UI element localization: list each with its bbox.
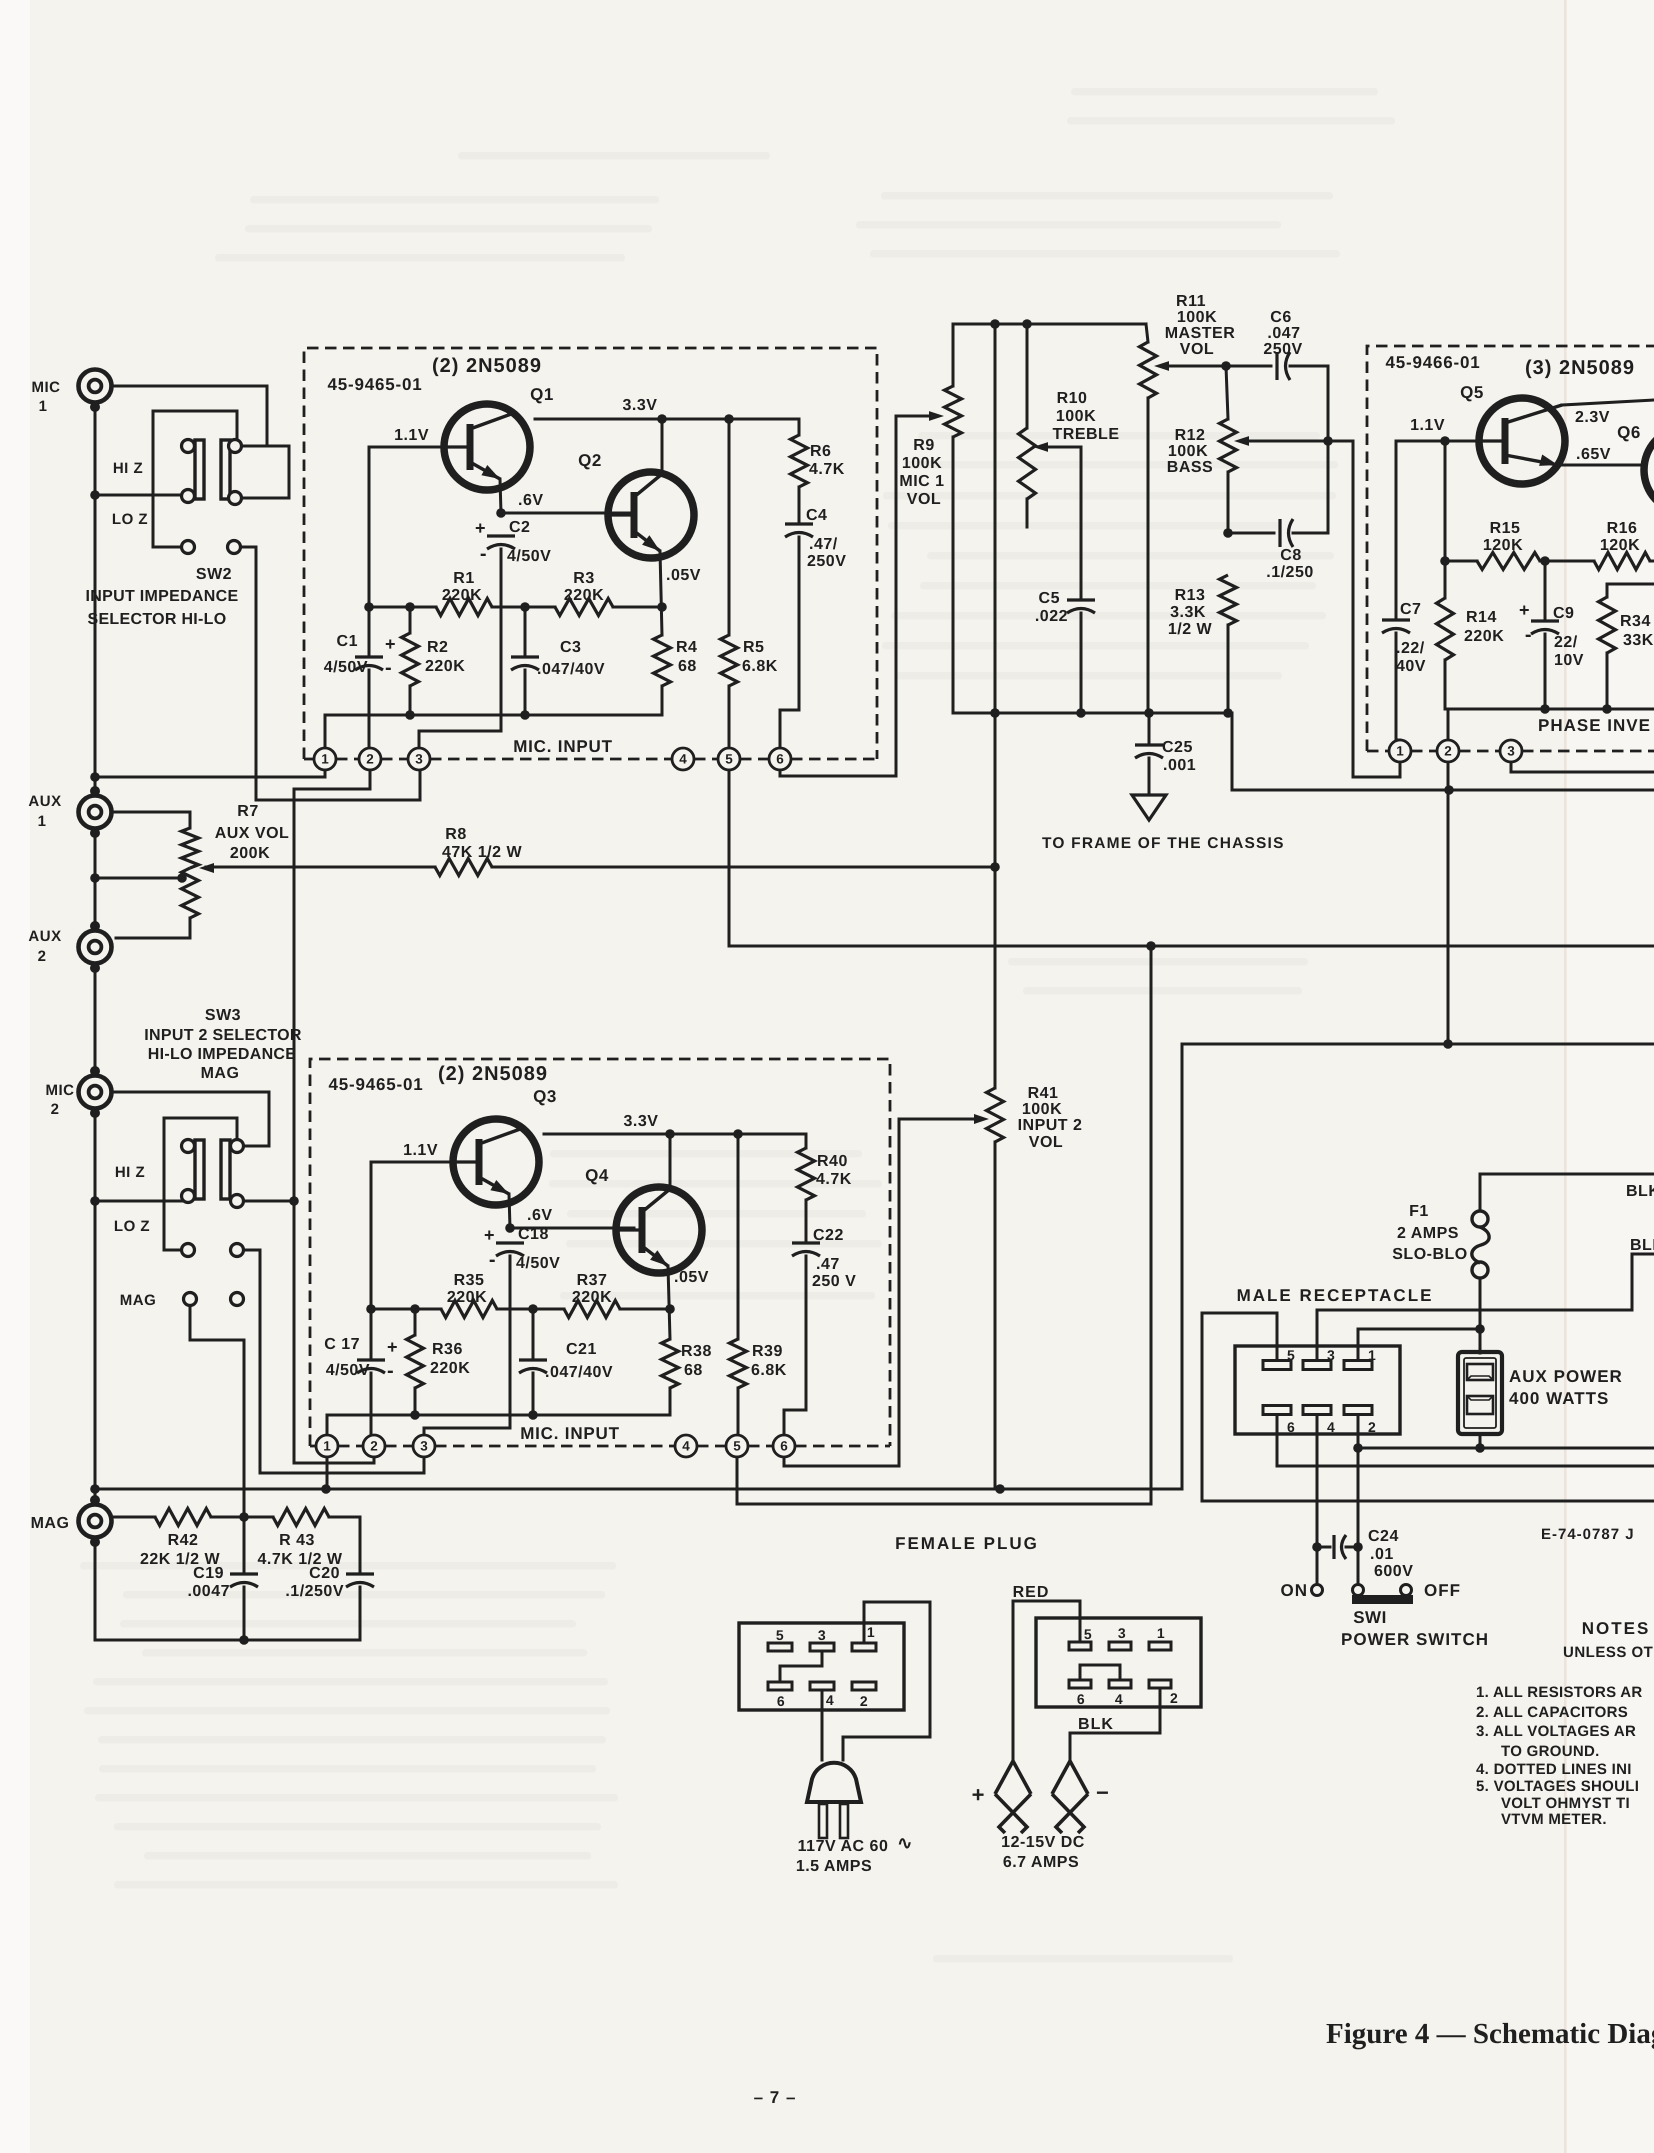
wire module2 terminal3 stub — [423, 1457, 426, 1473]
svg-text:3: 3 — [415, 752, 423, 767]
wire SW2 crossover left leg — [153, 411, 181, 547]
svg-text:1: 1 — [38, 813, 47, 830]
svg-text:6.8K: 6.8K — [742, 658, 778, 675]
svg-text:33K: 33K — [1623, 632, 1654, 649]
wire bus AUX1 to AUX2 — [94, 833, 97, 926]
wire R12 wiper to phase inverter input — [1240, 440, 1353, 443]
wire module3 terminal3 output (clipped) — [1511, 762, 1654, 772]
switch SW1 power switch — [1312, 1585, 1414, 1605]
potentiometer R41 100K INPUT 2 VOL — [987, 1088, 1004, 1142]
capacitor C19 — [230, 1572, 258, 1575]
svg-text:.047: .047 — [1267, 325, 1300, 342]
dash terminal 3 rightward (clipped) — [1522, 750, 1654, 753]
switch SW2 (DPDT input impedance selector) — [182, 440, 242, 554]
svg-text:BASS: BASS — [1167, 459, 1213, 476]
svg-text:12-15V DC: 12-15V DC — [1001, 1834, 1085, 1851]
wire C17 bottom to terminal 2 (module 2) — [370, 1373, 373, 1446]
pin 1 (female plug 1) — [852, 1643, 876, 1651]
wire R10 bottom stub — [1026, 499, 1029, 527]
svg-text:1: 1 — [321, 752, 329, 767]
dashed enclosure module 45-9466-01 (phase inverter) — [1367, 346, 1654, 751]
wire AUX1 jack to R7 top — [111, 812, 190, 828]
wire Q1 emitter to .6V node — [500, 479, 501, 513]
svg-text:220K: 220K — [1464, 628, 1504, 645]
svg-text:R 43: R 43 — [279, 1532, 315, 1549]
dash 1-2 (module 2) — [338, 1445, 363, 1448]
junction C9 top — [1540, 556, 1550, 566]
svg-text:AUX POWER: AUX POWER — [1509, 1367, 1623, 1386]
wire bias row left segment (module 2) — [371, 1308, 441, 1311]
svg-text:4: 4 — [1327, 1419, 1335, 1435]
svg-text:SWI: SWI — [1353, 1608, 1387, 1627]
svg-text:.6V: .6V — [527, 1207, 553, 1224]
junction R5 / rail — [724, 414, 734, 424]
svg-text:C8: C8 — [1280, 547, 1301, 564]
wire Q5 emitter .65V line to Q6 — [1561, 464, 1643, 467]
wire C3 top lead — [524, 607, 527, 654]
svg-text:+: + — [484, 1225, 495, 1245]
AUX POWER outlet — [1458, 1352, 1502, 1434]
svg-text:MASTER: MASTER — [1165, 325, 1236, 342]
wire R40 to C22 — [805, 1200, 808, 1240]
svg-text:R14: R14 — [1466, 609, 1497, 626]
svg-text:117V AC 60: 117V AC 60 — [798, 1838, 889, 1855]
svg-text:10V: 10V — [1554, 652, 1584, 669]
wire rail corner to R11 — [1146, 324, 1148, 342]
wire pin1 to fuse junction — [1358, 1329, 1480, 1360]
svg-text:.001: .001 — [1163, 757, 1196, 774]
wire RED lead pin5 to battery clip — [1013, 1601, 1080, 1763]
svg-text:-: - — [1525, 624, 1532, 646]
wire mic1 output line to phase inverter — [729, 945, 1654, 948]
svg-text:POWER SWITCH: POWER SWITCH — [1341, 1630, 1489, 1649]
svg-text:R3: R3 — [573, 570, 594, 587]
pin 5 (female plug 1) — [768, 1643, 792, 1651]
junction bus / module2 T1 — [321, 1484, 331, 1494]
wire SW3 MAG contact to R42/R43 junction — [190, 1306, 244, 1517]
junction R7 tap — [177, 873, 187, 883]
wire R4 bottom lead — [661, 686, 664, 715]
svg-text:MIC 1: MIC 1 — [899, 473, 944, 490]
junction R2 top — [405, 602, 415, 612]
wire jumper pin3 to pin6 (plug 1) — [780, 1651, 822, 1682]
wire SW3 LO-Z right to module2 terminal 3 — [243, 1250, 424, 1473]
svg-text:MIC. INPUT: MIC. INPUT — [513, 737, 613, 756]
dashed enclosure module 45-9465-01 (MIC2 preamp) — [310, 1059, 890, 1446]
wire R7 wiper to R8 — [206, 866, 435, 869]
wire long ground bus — [95, 1488, 1182, 1491]
transistor Q6 (partial, clipped at page edge) — [1644, 427, 1654, 513]
wire MIC2 jack to SW3 top-right contact — [111, 1092, 269, 1146]
wire to R15 — [1445, 560, 1477, 563]
svg-text:UNLESS OTHERWI: UNLESS OTHERWI — [1563, 1644, 1654, 1661]
potentiometer R7 lower half — [182, 868, 199, 918]
svg-text:SELECTOR HI-LO: SELECTOR HI-LO — [87, 611, 226, 628]
wire R36 top lead — [414, 1309, 417, 1335]
wire R8 to R41 feed line — [492, 866, 995, 869]
capacitor C4 — [785, 522, 813, 525]
jack MAG — [79, 1495, 112, 1547]
wire R3 to Q2 emitter line — [613, 606, 662, 609]
svg-text:2. ALL CAPACITORS: 2. ALL CAPACITORS — [1476, 1704, 1628, 1721]
svg-text:MIC: MIC — [32, 379, 61, 396]
svg-text:SLO-BLO: SLO-BLO — [1392, 1246, 1468, 1263]
svg-text:-: - — [480, 543, 487, 565]
svg-text:2: 2 — [1170, 1690, 1178, 1706]
dash terminal 6 to box edge (module 2) — [795, 1445, 890, 1448]
junction Q2 collector / rail — [657, 414, 667, 424]
wire main input ground bus (MIC1 to AUX1) — [94, 402, 97, 791]
wire Q3 base to bias node — [371, 1162, 453, 1309]
terminal 5 (module 2) — [726, 1435, 748, 1457]
wire terminal1 to ground bus — [95, 770, 325, 777]
wire SW2 crossover (top-right to LO-Z left) — [153, 411, 237, 438]
wire bus MAG jack down to bottom rail — [95, 1542, 360, 1640]
wire R16 continuation (clipped) — [1650, 560, 1654, 563]
wire terminal2 loop to selector bus — [294, 770, 370, 789]
junction R3 / emitter line — [657, 602, 667, 612]
wire Q2 emitter to R4 — [660, 551, 662, 635]
wire R14 bottom lead — [1444, 660, 1447, 709]
resistor R13 3.3K — [1220, 575, 1237, 625]
svg-text:C2: C2 — [509, 519, 530, 536]
wiper arrow R9 — [929, 411, 944, 421]
wire pin5 loop to bottom line — [1202, 1313, 1654, 1501]
wire module3 terminal1 riser to bass wiper — [1353, 441, 1400, 777]
junction bus / SW2 HI-Z row — [90, 490, 100, 500]
fuse F1 2 AMPS SLO-BLO — [1472, 1211, 1489, 1278]
junction R12 / C8 / R13 — [1223, 528, 1233, 538]
svg-text:R10: R10 — [1057, 390, 1088, 407]
svg-text:120K: 120K — [1600, 537, 1640, 554]
junction bus / SW3 HI-Z row — [90, 1196, 100, 1206]
svg-text:.6V: .6V — [518, 492, 544, 509]
svg-text:+: + — [475, 518, 486, 538]
svg-text:3: 3 — [818, 1627, 826, 1643]
svg-text:E-74-0787 J: E-74-0787 J — [1541, 1526, 1635, 1543]
capacitor C21 — [519, 1358, 547, 1361]
transistor Q1 — [444, 404, 530, 490]
svg-text:VOL: VOL — [1029, 1134, 1063, 1151]
svg-text:.22/: .22/ — [1396, 640, 1425, 657]
wire R34 top lead (clipped) — [1607, 583, 1654, 586]
svg-text:6: 6 — [1287, 1419, 1295, 1435]
svg-text:INPUT 2 SELECTOR: INPUT 2 SELECTOR — [144, 1027, 302, 1044]
wire Q5 base lead — [1396, 440, 1479, 443]
svg-text:2: 2 — [38, 948, 47, 965]
svg-text:∿: ∿ — [897, 1833, 913, 1853]
junction R36 / rail (module 2) — [410, 1410, 420, 1420]
svg-text:3.3V: 3.3V — [624, 1113, 659, 1130]
svg-text:4/50V: 4/50V — [326, 1362, 370, 1379]
svg-text:R4: R4 — [676, 639, 697, 656]
potentiometer R12 100K BASS — [1220, 419, 1237, 472]
svg-text:600V: 600V — [1374, 1563, 1413, 1580]
resistor R15 120K — [1477, 553, 1540, 570]
svg-text:Q5: Q5 — [1460, 383, 1484, 402]
terminal 4 (module 1) — [672, 748, 694, 770]
svg-text:INPUT 2: INPUT 2 — [1018, 1117, 1083, 1134]
svg-text:.01: .01 — [1370, 1546, 1394, 1563]
capacitor C25 — [1135, 743, 1163, 746]
svg-text:C1: C1 — [337, 633, 358, 650]
resistor R40 4.7K — [798, 1148, 815, 1200]
svg-text:220K: 220K — [442, 587, 482, 604]
wire pin4 to AC plug — [821, 1690, 824, 1760]
svg-text:R1: R1 — [453, 570, 474, 587]
wire BLK lead pin2 to battery clip — [1070, 1688, 1160, 1763]
svg-text:(3) 2N5089: (3) 2N5089 — [1525, 357, 1635, 379]
svg-text:250V: 250V — [807, 553, 846, 570]
svg-text:INPUT IMPEDANCE: INPUT IMPEDANCE — [86, 588, 239, 605]
junction T2 drop / lower ground line — [1443, 1039, 1453, 1049]
dashed enclosure module 45-9465-01 (MIC1 preamp) — [304, 348, 877, 759]
dash 2-3 (module 3) — [1459, 750, 1500, 753]
svg-text:AUX: AUX — [28, 928, 61, 945]
svg-text:.1/250: .1/250 — [1266, 564, 1313, 581]
pin 6 (male receptacle) — [1263, 1406, 1291, 1415]
svg-text:6: 6 — [776, 752, 784, 767]
dash 2-3 — [381, 758, 408, 761]
battery clip - (12-15VDC) — [1052, 1761, 1088, 1833]
svg-text:R42: R42 — [168, 1532, 199, 1549]
dash 3-4 (module 2) — [435, 1445, 675, 1448]
svg-text:C6: C6 — [1270, 309, 1291, 326]
AC line plug 117VAC — [807, 1763, 861, 1802]
capacitor C3 — [511, 655, 539, 658]
capacitor C2 — [487, 534, 515, 537]
svg-text:Q4: Q4 — [585, 1166, 609, 1185]
wire C25 top lead — [1148, 713, 1151, 742]
terminal 2 (module 1) — [359, 748, 381, 770]
wire C17 top lead — [370, 1309, 373, 1357]
svg-text:5: 5 — [1287, 1347, 1295, 1363]
junction .6V node (module 2) — [505, 1223, 515, 1233]
svg-text:.047/40V: .047/40V — [537, 661, 605, 678]
wire R6 to C4 — [798, 487, 801, 521]
svg-text:2.3V: 2.3V — [1575, 409, 1610, 426]
svg-text:+: + — [1519, 600, 1530, 620]
resistor R4 68 — [654, 635, 671, 686]
svg-text:Q6: Q6 — [1617, 423, 1641, 442]
wire R43 to C20 — [329, 1517, 360, 1571]
wire R11 bottom lead — [1147, 398, 1150, 713]
svg-text:R11: R11 — [1176, 293, 1206, 310]
svg-text:R9: R9 — [913, 437, 934, 454]
wire R2 bottom lead — [409, 686, 412, 715]
wire R7 bottom to AUX2 jack — [116, 918, 190, 938]
svg-text:+: + — [387, 1337, 398, 1357]
wire pin4 to ON contact — [1316, 1415, 1319, 1585]
wire R36 bottom lead — [414, 1388, 417, 1415]
male receptacle connector body — [1235, 1346, 1400, 1434]
wire rail to terminal 1 — [324, 715, 327, 748]
wire R9 top lead — [952, 324, 955, 386]
svg-text:AUX: AUX — [28, 793, 61, 810]
wire R41 bottom lead — [994, 1142, 997, 1489]
svg-text:4: 4 — [682, 1439, 690, 1454]
svg-text:C20: C20 — [309, 1565, 340, 1582]
wire C22 bottom to terminal 6 (module 2) — [784, 1256, 806, 1435]
svg-text:R16: R16 — [1607, 520, 1638, 537]
wire R5 bottom to terminal 5 — [728, 686, 731, 748]
svg-text:R38: R38 — [681, 1343, 712, 1360]
svg-text:120K: 120K — [1483, 537, 1523, 554]
svg-text:R6: R6 — [810, 443, 831, 460]
wire bus MIC2 to MAG — [94, 1113, 97, 1500]
svg-text:LO Z: LO Z — [114, 1218, 150, 1235]
svg-text:BLK: BLK — [1626, 1183, 1654, 1200]
junction R34 / rail — [1602, 704, 1612, 714]
wire R34 top stub — [1606, 584, 1609, 597]
dash 3-4 — [430, 758, 672, 761]
wire module2 T5 output to input2 feed line — [737, 946, 1151, 1504]
svg-text:4/50V: 4/50V — [516, 1255, 560, 1272]
svg-text:VOLT OHMYST TI: VOLT OHMYST TI — [1501, 1795, 1630, 1812]
junction .6V node — [496, 508, 506, 518]
svg-text:R13: R13 — [1175, 587, 1206, 604]
svg-text:250V: 250V — [1263, 341, 1302, 358]
wire R5 top lead — [728, 419, 731, 635]
wire SW2 HI-Z left contact to bus — [95, 494, 181, 497]
wire C9 bottom lead — [1544, 634, 1547, 709]
resistor R34 33K — [1599, 597, 1616, 653]
capacitor C22 — [792, 1241, 820, 1244]
wire C19 top lead — [243, 1517, 246, 1571]
svg-text:1/2 W: 1/2 W — [1168, 621, 1213, 638]
svg-text:LO Z: LO Z — [112, 511, 148, 528]
wire MAG jack to R42 — [111, 1516, 155, 1519]
dash 5-6 — [740, 758, 769, 761]
wire R14 top lead — [1444, 561, 1447, 598]
wire C20 bottom lead — [359, 1587, 362, 1640]
wire C19 bottom lead — [243, 1587, 246, 1640]
wire R12 top lead — [1226, 366, 1228, 419]
wire jumper pin6 to pin4 (plug 2) — [1080, 1665, 1120, 1680]
wiper arrow R41 — [974, 1114, 989, 1124]
wire C18 bottom to terminal 3 (module 2) — [424, 1256, 510, 1446]
svg-text:C4: C4 — [806, 507, 827, 524]
svg-text:R36: R36 — [432, 1341, 463, 1358]
svg-text:PHASE INVE: PHASE INVE — [1538, 716, 1651, 735]
pin 4 (female plug 2) — [1109, 1680, 1131, 1688]
svg-text:TO FRAME OF THE CHASSIS: TO FRAME OF THE CHASSIS — [1042, 835, 1285, 852]
potentiometer R9 100K MIC1 VOL — [945, 386, 962, 437]
svg-text:1.1V: 1.1V — [394, 427, 429, 444]
wire R2 top lead — [409, 607, 412, 633]
terminal 6 (module 1) — [769, 748, 791, 770]
svg-text:2 AMPS: 2 AMPS — [1397, 1225, 1459, 1242]
svg-text:R41: R41 — [1028, 1085, 1059, 1102]
wire .6V node to Q2 base — [501, 512, 634, 515]
svg-text:68: 68 — [684, 1362, 703, 1379]
junction R37 / emitter line — [665, 1304, 675, 1314]
junction C21 top — [528, 1304, 538, 1314]
junction R39 / rail — [733, 1129, 743, 1139]
svg-text:5. VOLTAGES SHOULI: 5. VOLTAGES SHOULI — [1476, 1778, 1639, 1795]
svg-text:2: 2 — [1444, 744, 1452, 759]
svg-text:+: + — [385, 634, 396, 654]
wire Q5 base to R15 node — [1444, 441, 1447, 561]
svg-text:R39: R39 — [752, 1343, 783, 1360]
capacitor C5 — [1067, 598, 1095, 601]
jack MIC 1 — [79, 370, 112, 413]
wire C24 right lead — [1346, 1546, 1358, 1549]
svg-text:1: 1 — [1368, 1347, 1376, 1363]
capacitor C9 — [1531, 619, 1559, 622]
wire R15 to R16 — [1540, 560, 1594, 563]
svg-text:5: 5 — [733, 1439, 741, 1454]
wire R34 bottom lead — [1606, 653, 1609, 709]
wire module1 internal ground rail — [325, 714, 662, 717]
junction selector bus / SW3 contact — [289, 1196, 299, 1206]
wire C7 bottom to terminal 1 (module 3) — [1396, 633, 1400, 740]
wire terminal6 output up to R9 wiper — [780, 416, 936, 776]
svg-text:ON: ON — [1281, 1581, 1309, 1600]
svg-text:(2) 2N5089: (2) 2N5089 — [432, 355, 542, 377]
wiper arrow R10 — [1033, 442, 1048, 452]
dash 4-5 — [694, 758, 718, 761]
svg-text:-: - — [385, 657, 392, 679]
svg-text:R40: R40 — [817, 1153, 848, 1170]
pin 4 (female plug 1) — [810, 1682, 834, 1690]
svg-text:4: 4 — [826, 1692, 834, 1708]
svg-text:C25: C25 — [1162, 739, 1193, 756]
resistor R2 220K — [402, 633, 419, 686]
wire bias row left segment — [369, 606, 436, 609]
junction R14/R15 — [1440, 556, 1450, 566]
wire module2 terminal2 stub — [373, 1457, 376, 1463]
wire outlet return line — [1358, 1447, 1654, 1450]
svg-text:400 WATTS: 400 WATTS — [1509, 1389, 1609, 1408]
wire C21 bottom lead — [532, 1373, 535, 1415]
svg-text:VTVM METER.: VTVM METER. — [1501, 1811, 1607, 1828]
svg-text:MAG: MAG — [120, 1292, 157, 1309]
capacitor C1 — [355, 655, 383, 658]
svg-text:100K: 100K — [1177, 309, 1217, 326]
terminal 5 (module 1) — [718, 748, 740, 770]
svg-text:1: 1 — [1396, 744, 1404, 759]
wire R38 bottom lead — [669, 1388, 672, 1415]
svg-text:C5: C5 — [1039, 590, 1060, 607]
svg-text:220K: 220K — [430, 1360, 470, 1377]
svg-text:C7: C7 — [1400, 601, 1421, 618]
svg-text:VOL: VOL — [1180, 341, 1214, 358]
svg-text:2: 2 — [51, 1101, 60, 1118]
wire 3.3V collector rail (module 1) — [535, 418, 799, 421]
pin 2 (male receptacle) — [1344, 1406, 1372, 1415]
wire outlet bottom lead — [1479, 1434, 1482, 1448]
svg-text:AUX VOL: AUX VOL — [215, 825, 290, 842]
svg-text:1: 1 — [1157, 1625, 1165, 1641]
svg-text:Q2: Q2 — [578, 451, 602, 470]
terminal 1 (module 2) — [316, 1435, 338, 1457]
wire fuse to AUX outlet — [1479, 1278, 1482, 1353]
wire R42 to R43 — [211, 1516, 273, 1519]
wire .6V node to Q4 base — [510, 1227, 634, 1230]
terminal 1 (module 3) — [1389, 740, 1411, 762]
svg-text:3. ALL VOLTAGES AR: 3. ALL VOLTAGES AR — [1476, 1723, 1636, 1740]
junction pin4 line / C24 — [1312, 1542, 1322, 1552]
wire terminal5 output down — [728, 770, 731, 946]
wire C4 bottom to terminal 6 — [780, 537, 799, 748]
transistor Q4 — [616, 1187, 702, 1273]
junction C5 / ground rail — [1076, 708, 1086, 718]
dash 4-5 (module 2) — [697, 1445, 726, 1448]
dash 5-6 (module 2) — [748, 1445, 773, 1448]
wire C24 left lead — [1317, 1546, 1330, 1549]
svg-text:.047/40V: .047/40V — [545, 1364, 613, 1381]
